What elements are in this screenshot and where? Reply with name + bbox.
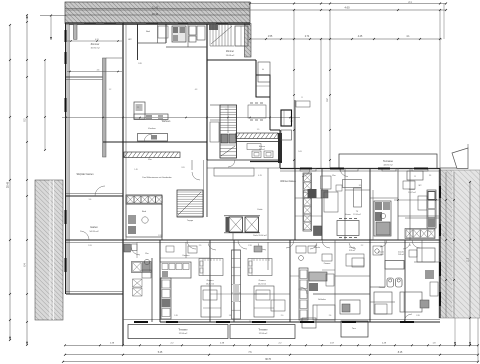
svg-text:Flur: Flur <box>145 252 149 255</box>
svg-text:12.96 m2: 12.96 m2 <box>179 333 189 335</box>
svg-text:21.45: 21.45 <box>152 6 159 10</box>
svg-text:16.21 m2: 16.21 m2 <box>206 284 214 286</box>
svg-text:2.95: 2.95 <box>248 245 252 247</box>
svg-text:2.4: 2.4 <box>225 109 228 111</box>
svg-text:Flur: Flur <box>148 159 152 161</box>
svg-text:Schlafen: Schlafen <box>318 299 326 301</box>
svg-text:1.9: 1.9 <box>257 129 260 131</box>
svg-text:15.91 m2: 15.91 m2 <box>90 48 100 50</box>
svg-text:Zimmer: Zimmer <box>379 286 386 289</box>
svg-text:1.2: 1.2 <box>109 89 112 91</box>
svg-text:Terrasse: Terrasse <box>258 329 268 332</box>
svg-text:13.08 m2: 13.08 m2 <box>226 55 236 57</box>
svg-text:Flur: Flur <box>332 174 336 177</box>
svg-text:Kochen: Kochen <box>148 128 156 130</box>
svg-text:Flur: Flur <box>298 289 301 291</box>
svg-text:Entree: Entree <box>259 145 266 148</box>
svg-text:Zimmer: Zimmer <box>206 279 213 282</box>
svg-text:2.9: 2.9 <box>199 245 202 247</box>
svg-text:20.10: 20.10 <box>152 12 159 16</box>
svg-text:8.15: 8.15 <box>398 352 403 354</box>
svg-text:Zimmer: Zimmer <box>324 263 331 265</box>
svg-text:WC: WC <box>128 39 132 41</box>
svg-text:11.2: 11.2 <box>468 257 470 262</box>
svg-text:17.06 m2: 17.06 m2 <box>353 214 361 216</box>
svg-text:12.07 m2: 12.07 m2 <box>408 192 416 194</box>
svg-text:Terrasse: Terrasse <box>178 329 188 332</box>
svg-text:3.3: 3.3 <box>249 321 251 323</box>
svg-text:4.3: 4.3 <box>195 89 198 91</box>
svg-text:5.6: 5.6 <box>89 199 92 201</box>
svg-text:4.45: 4.45 <box>358 36 363 38</box>
svg-text:Zimmer: Zimmer <box>258 279 265 282</box>
svg-text:Das Wohnzimmer mit Garderobe: Das Wohnzimmer mit Garderobe <box>142 176 172 179</box>
svg-text:4.15: 4.15 <box>258 175 262 177</box>
svg-text:12.96 m2: 12.96 m2 <box>259 333 269 335</box>
svg-text:2.1: 2.1 <box>137 107 140 109</box>
svg-text:Garten: Garten <box>90 226 98 229</box>
svg-text:44.81 m2: 44.81 m2 <box>383 165 393 167</box>
svg-text:3.95 m2: 3.95 m2 <box>349 250 355 252</box>
svg-text:1.45: 1.45 <box>134 169 137 171</box>
svg-text:4.55: 4.55 <box>95 39 99 41</box>
svg-text:Zimmer: Zimmer <box>226 50 234 53</box>
svg-text:38.76: 38.76 <box>265 359 271 361</box>
svg-text:1.8: 1.8 <box>229 315 232 317</box>
svg-text:54.20 m2: 54.20 m2 <box>89 231 99 233</box>
svg-text:3.9: 3.9 <box>359 185 362 187</box>
svg-text:2.6: 2.6 <box>329 315 332 317</box>
svg-text:Terrasse: Terrasse <box>383 159 394 163</box>
svg-text:1.95: 1.95 <box>428 231 432 233</box>
svg-text:5.55: 5.55 <box>88 245 92 247</box>
svg-text:Terr.: Terr. <box>352 327 357 330</box>
svg-text:4.60: 4.60 <box>344 6 350 10</box>
svg-text:5.05: 5.05 <box>298 151 302 153</box>
svg-text:5.45: 5.45 <box>158 352 163 354</box>
svg-text:Red.: Red. <box>303 192 307 194</box>
svg-text:Treppe: Treppe <box>187 220 194 222</box>
svg-text:Zimmer: Zimmer <box>91 42 100 46</box>
svg-text:2.2: 2.2 <box>361 245 364 247</box>
svg-text:Wohnen: Wohnen <box>162 121 171 123</box>
svg-text:1.4: 1.4 <box>315 245 318 247</box>
svg-text:Diele: Diele <box>258 209 264 211</box>
svg-text:2.05: 2.05 <box>181 167 184 169</box>
svg-text:2.69 m2: 2.69 m2 <box>398 254 404 256</box>
svg-text:28.45: 28.45 <box>7 181 10 188</box>
svg-text:3.1: 3.1 <box>409 245 412 247</box>
svg-text:2.3: 2.3 <box>429 175 431 177</box>
svg-text:3.55: 3.55 <box>158 235 162 237</box>
svg-text:Wohnen Essen: Wohnen Essen <box>280 181 296 183</box>
svg-text:2.85: 2.85 <box>416 315 420 317</box>
svg-text:Sitzplatz Garten: Sitzplatz Garten <box>76 173 94 176</box>
svg-text:2.74: 2.74 <box>305 36 310 38</box>
svg-text:1.55: 1.55 <box>268 36 273 38</box>
svg-text:2.0: 2.0 <box>281 315 284 317</box>
svg-text:Diele 20.04 m2: Diele 20.04 m2 <box>253 235 267 237</box>
svg-text:2.45: 2.45 <box>174 315 178 317</box>
svg-text:16.21 m2: 16.21 m2 <box>258 284 266 286</box>
svg-text:3.85: 3.85 <box>138 63 142 65</box>
svg-text:4.6: 4.6 <box>97 69 100 71</box>
svg-text:Essen: Essen <box>345 214 351 216</box>
